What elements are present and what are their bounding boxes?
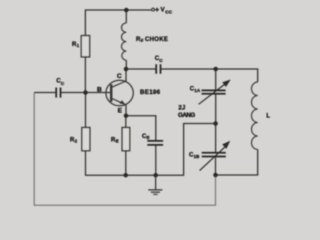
svg-text:1B: 1B [194,154,201,159]
svg-text:E: E [118,108,123,115]
svg-text:BE196: BE196 [140,89,161,96]
svg-text:1: 1 [77,43,80,48]
svg-text:E: E [147,135,150,140]
svg-text:B: B [97,86,102,93]
svg-text:CHOKE: CHOKE [145,37,168,43]
svg-text:2: 2 [75,139,78,144]
svg-text:C: C [159,58,163,64]
svg-text:GANG: GANG [178,112,195,119]
svg-text:CC: CC [165,10,173,15]
svg-text:1A: 1A [194,88,201,93]
svg-text:C: C [117,73,122,80]
svg-text:F: F [141,38,144,43]
svg-text:L: L [266,112,270,119]
svg-text:2J: 2J [178,104,185,111]
svg-text:C: C [61,81,65,87]
svg-text:E: E [116,139,119,144]
svg-text:+: + [155,7,159,14]
